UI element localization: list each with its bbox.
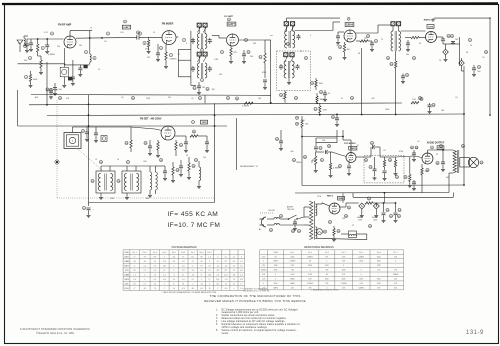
svg-text:19T8: 19T8 — [428, 26, 434, 28]
wire vertical x214.5 section — [214, 103, 216, 202]
vertical x459.6 — [459, 37, 461, 66]
svg-text:76: 76 — [233, 279, 235, 281]
interlock dashes — [260, 212, 273, 214]
capacitor C9 T1 left — [192, 38, 194, 42]
wire T2 top feed — [287, 17, 341, 19]
svg-text:12AT6: 12AT6 — [124, 278, 129, 281]
svg-text:500: 500 — [59, 89, 62, 91]
wire V4 plate to T4 — [356, 32, 378, 34]
svg-text:-1.0: -1.0 — [224, 279, 227, 281]
svg-text:1MEG: 1MEG — [290, 278, 295, 280]
svg-text:1MEG: 1MEG — [273, 287, 278, 289]
svg-text:-8.5: -8.5 — [200, 288, 203, 290]
svg-text:RESISTANCE READINGS: RESISTANCE READINGS — [304, 246, 334, 249]
svg-text:220: 220 — [147, 57, 150, 59]
svg-text:0: 0 — [361, 270, 362, 272]
svg-text:12.6: 12.6 — [208, 274, 211, 276]
svg-text:100: 100 — [219, 74, 222, 76]
wire vertical x302 — [301, 147, 303, 186]
svg-text:Pin 2: Pin 2 — [308, 252, 312, 254]
capacitor C1 ant — [26, 39, 28, 44]
transformer T2 1st FM IF — [286, 26, 288, 31]
capacitor C35 at 316 — [315, 143, 317, 146]
trimmer CT5 — [284, 22, 289, 26]
svg-text:-8.5: -8.5 — [172, 256, 175, 258]
electrolytic CE3 B- — [88, 203, 90, 207]
svg-text:1ST AUDIO: 1ST AUDIO — [344, 142, 356, 145]
resistor R26 V8 grid leak — [409, 174, 411, 181]
svg-text:Pin 4: Pin 4 — [162, 252, 166, 254]
svg-text:47: 47 — [163, 270, 165, 272]
wire V8 cathode down — [421, 188, 423, 193]
svg-text:94: 94 — [209, 265, 211, 267]
coil L5 — [199, 167, 201, 181]
svg-text:117: 117 — [224, 261, 227, 263]
capacitor C39 V8 — [413, 180, 415, 182]
svg-text:FM RF AMP: FM RF AMP — [58, 23, 72, 26]
wire B plus chain — [375, 203, 377, 206]
svg-text:100: 100 — [250, 56, 253, 58]
svg-text:-7: -7 — [217, 288, 219, 290]
resistor R19 V6 right — [175, 142, 177, 150]
svg-text:1.2: 1.2 — [163, 274, 165, 276]
svg-text:1.4: 1.4 — [133, 274, 135, 276]
svg-text:117: 117 — [182, 270, 185, 272]
transformer T4 ratio det — [392, 26, 394, 31]
wire verticals from row2 — [336, 130, 338, 143]
tuning capacitor CV1 — [64, 133, 81, 149]
wire screen pair — [316, 137, 337, 139]
svg-text:0: 0 — [395, 261, 396, 263]
wire V8 plate to OT — [424, 149, 426, 151]
svg-text:1/2 12AT7: 1/2 12AT7 — [224, 15, 234, 18]
svg-text:131-9: 131-9 — [466, 330, 484, 336]
svg-text:12BA6: 12BA6 — [124, 273, 129, 276]
svg-text:Pin 5: Pin 5 — [359, 252, 363, 254]
svg-text:35W4: 35W4 — [338, 197, 344, 200]
svg-text:117: 117 — [133, 270, 136, 272]
capacitor C14 V3 — [243, 50, 245, 54]
svg-text:1.2: 1.2 — [233, 256, 235, 258]
svg-text:.01: .01 — [455, 97, 458, 99]
coil L2 right of V1 — [89, 31, 91, 54]
svg-text:.45: .45 — [200, 283, 202, 285]
boxed label 12AT7 V3 — [227, 22, 236, 26]
svg-text:.45: .45 — [154, 283, 156, 285]
svg-text:L3: L3 — [90, 28, 92, 30]
table voltage readings grid — [122, 250, 124, 290]
svg-text:.45: .45 — [144, 261, 146, 263]
svg-text:Pin 1: Pin 1 — [290, 252, 294, 254]
boxed label 19T8 V6 — [200, 120, 207, 124]
svg-text:47: 47 — [182, 256, 184, 258]
transformer T7 output comb — [453, 150, 456, 173]
capacitor C22 V5 right — [437, 36, 444, 38]
trimmer CT9 — [391, 22, 395, 26]
resistor R2 — [40, 60, 42, 68]
svg-text:150: 150 — [342, 218, 345, 220]
capacitor C28 gang b — [95, 127, 97, 133]
svg-text:1.4: 1.4 — [208, 256, 210, 258]
svg-text:117: 117 — [133, 283, 136, 285]
capacitor C32 — [164, 166, 166, 171]
svg-text:.02: .02 — [383, 150, 386, 152]
svg-text:94: 94 — [144, 256, 146, 258]
capacitor C17 T3 left — [280, 64, 282, 66]
svg-text:Socket connections are shown a: Socket connections are shown as bottom v… — [222, 314, 276, 317]
svg-text:0: 0 — [209, 261, 210, 263]
svg-text:L5: L5 — [95, 159, 97, 161]
svg-text:RECT: RECT — [327, 195, 334, 197]
svg-text:12BA6: 12BA6 — [124, 260, 129, 263]
wire T2 left vertical — [270, 40, 272, 103]
svg-text:117: 117 — [191, 256, 194, 258]
capacitor C3 — [46, 39, 48, 45]
svg-text:10MEG: 10MEG — [358, 287, 364, 289]
svg-text:76: 76 — [154, 274, 156, 276]
svg-text:1.4: 1.4 — [200, 270, 202, 272]
svg-text:4.7MEG: 4.7MEG — [48, 54, 55, 56]
trimmer CT1 — [197, 23, 202, 27]
svg-text:5: 5 — [186, 43, 187, 45]
svg-text:Pin 7: Pin 7 — [394, 252, 398, 254]
boxed trimmer small — [101, 136, 107, 142]
capacitor C8 V2 cathode — [157, 44, 159, 53]
svg-text:2.2MEG: 2.2MEG — [340, 283, 347, 285]
svg-text:1.4: 1.4 — [154, 265, 156, 267]
wire V7 plate up — [350, 140, 352, 153]
svg-text:Volume control at maximum, no: Volume control at maximum, no signal app… — [222, 329, 297, 332]
capacitor C29 V6 — [149, 140, 151, 146]
svg-text:2.1: 2.1 — [225, 256, 227, 258]
tube V2 FM MIXER — [162, 31, 176, 45]
svg-text:Pin 3: Pin 3 — [153, 252, 157, 254]
svg-text:.005: .005 — [477, 71, 481, 73]
tube V8 AUDIO OUTPUT — [422, 153, 433, 164]
capacitor C31 — [206, 136, 208, 142]
svg-text:1.4: 1.4 — [173, 279, 175, 281]
svg-text:10MEG: 10MEG — [307, 256, 313, 258]
svg-text:3-13: 3-13 — [44, 32, 48, 34]
wire bus y115 — [47, 114, 464, 116]
svg-text:L6: L6 — [117, 159, 119, 161]
capacitor C23 right edge — [473, 65, 475, 68]
dashed tone box — [364, 155, 404, 183]
wire V1 out to V2 — [76, 36, 137, 39]
wire T1 left vertical — [190, 31, 192, 86]
resistor R1 — [37, 44, 39, 52]
vertical x464 det out — [463, 66, 465, 114]
svg-text:470K: 470K — [145, 49, 150, 51]
capacitor C25 bus — [336, 114, 338, 118]
svg-text:0: 0 — [343, 265, 344, 267]
svg-text:0: 0 — [164, 283, 165, 285]
svg-text:-1.0: -1.0 — [153, 270, 156, 272]
wire vertical x88.5 — [88, 95, 90, 203]
svg-text:76: 76 — [154, 288, 156, 290]
svg-text:105: 105 — [163, 265, 166, 267]
resistor R20 — [190, 135, 198, 137]
svg-text:0: 0 — [263, 283, 264, 285]
capacitor C33 — [180, 160, 182, 166]
wire gang top — [72, 127, 74, 133]
boxed label small — [68, 77, 73, 81]
transformer T5 leads — [100, 166, 102, 171]
resistor R22 — [188, 163, 190, 171]
svg-text:10: 10 — [153, 32, 155, 34]
trimmer CT7 — [284, 53, 289, 57]
electrolytic CE4 — [359, 203, 365, 209]
resistor R4 left low — [29, 74, 31, 81]
wire audio takeoff — [461, 68, 463, 71]
dashed shield box T3 — [277, 51, 311, 91]
capacitor C12 — [209, 66, 211, 68]
transformer T6 leads — [126, 166, 128, 171]
svg-text:0: 0 — [173, 265, 174, 267]
AC plug P1 — [262, 217, 267, 227]
svg-text:0: 0 — [192, 265, 193, 267]
svg-text:1MEG: 1MEG — [296, 162, 302, 164]
boxed label 19T8 V5 — [427, 25, 434, 29]
dashed gang diagonal — [78, 149, 103, 171]
svg-text:47: 47 — [357, 145, 359, 147]
svg-text:1.2: 1.2 — [208, 270, 210, 272]
svg-text:35W4: 35W4 — [124, 288, 128, 290]
resistor R21 — [172, 167, 174, 175]
ground T3 — [288, 78, 290, 81]
wire vertical x205 — [204, 95, 206, 103]
capacitor C13 below T1 — [198, 82, 200, 86]
svg-text:330: 330 — [394, 287, 397, 289]
wire B+ right bus — [434, 17, 490, 19]
line filter caps — [294, 219, 296, 222]
svg-text:2.2MEG: 2.2MEG — [307, 283, 314, 285]
svg-text:IF= 455 KC AM: IF= 455 KC AM — [168, 211, 219, 218]
coil L4 osc — [150, 172, 152, 190]
svg-text:0: 0 — [233, 288, 234, 290]
svg-text:THE COOPERATION OF THE MANUFAC: THE COOPERATION OF THE MANUFACTURER OF T… — [210, 294, 301, 298]
svg-text:.01: .01 — [191, 98, 194, 100]
svg-text:Nominal tolerance on component: Nominal tolerance on component values ma… — [222, 323, 300, 326]
resistor R6 V2 — [165, 52, 167, 60]
transformer T6 AM IF can B — [122, 171, 141, 193]
svg-text:300: 300 — [55, 90, 58, 92]
resistor R3 cathode boxed — [60, 67, 68, 77]
components left of V4 — [338, 31, 344, 33]
V8 cathode parts — [421, 168, 423, 175]
gang junction — [56, 161, 58, 163]
wire heater line y197 — [353, 196, 453, 198]
svg-text:470K: 470K — [301, 120, 306, 122]
junction labels row2 — [206, 87, 209, 90]
svg-text:100: 100 — [347, 49, 350, 51]
svg-text:Pin 3: Pin 3 — [325, 252, 329, 254]
resistor R13 below T4 — [395, 61, 397, 68]
svg-text:.45: .45 — [200, 261, 202, 263]
svg-text:47: 47 — [341, 98, 343, 100]
resistor R15 bus drop — [316, 96, 318, 102]
svg-text:Pin 1: Pin 1 — [133, 252, 137, 254]
resistor R27 filter — [365, 202, 373, 204]
svg-text:0: 0 — [209, 283, 210, 285]
svg-text:47: 47 — [18, 43, 20, 45]
wire B plus up — [383, 193, 385, 203]
svg-text:117: 117 — [224, 270, 227, 272]
transformer T3 1st AM IF — [284, 61, 286, 78]
svg-text:10: 10 — [300, 51, 302, 53]
svg-text:35: 35 — [209, 288, 211, 290]
svg-text:12AT7: 12AT7 — [124, 264, 129, 267]
boxed label 12BA6 V4 — [345, 23, 354, 27]
components left of V5 — [411, 36, 419, 38]
svg-text:-8.5: -8.5 — [216, 283, 219, 285]
svg-text:330: 330 — [406, 54, 409, 56]
wire V6 grid — [131, 127, 155, 129]
svg-text:1.4: 1.4 — [217, 274, 219, 276]
svg-text:22: 22 — [352, 225, 354, 227]
resistor R17 V6 grid — [130, 140, 132, 148]
svg-text:10MEG: 10MEG — [261, 270, 267, 272]
svg-text:.05: .05 — [121, 97, 124, 99]
T8 lead wires — [304, 216, 310, 218]
svg-text:-8.5: -8.5 — [240, 270, 243, 272]
svg-text:330: 330 — [262, 265, 265, 267]
svg-text:2.2M: 2.2M — [214, 59, 218, 61]
texture refs group B — [138, 32, 141, 35]
svg-text:68: 68 — [326, 274, 328, 276]
svg-text:Pin 4: Pin 4 — [342, 252, 346, 254]
electrolytic CE5 — [373, 203, 379, 209]
svg-text:-7: -7 — [164, 288, 166, 290]
svg-text:6.3: 6.3 — [154, 279, 156, 281]
svg-text:150K: 150K — [319, 83, 324, 85]
capacitor C19 — [324, 90, 326, 93]
svg-text:.05: .05 — [282, 98, 285, 100]
transformer T1 FM ant coil upper — [198, 27, 200, 33]
wire long y64 — [18, 63, 65, 65]
junction dots bus — [361, 114, 363, 116]
resistor R8 x265 — [264, 53, 266, 63]
svg-text:Pin 6: Pin 6 — [181, 252, 185, 254]
svg-text:RECEIVER MAKES IT POSSIBLE TO: RECEIVER MAKES IT POSSIBLE TO BRING YOU … — [204, 299, 306, 303]
svg-text:6.8MEG: 6.8MEG — [170, 59, 177, 61]
resistor R30 302 — [301, 121, 303, 128]
svg-text:100: 100 — [57, 46, 60, 48]
electrolytic CE2 — [459, 60, 465, 66]
filter choke L6 — [349, 231, 357, 238]
resistor R14 4.7MEG on bus — [235, 97, 238, 100]
wire T4 to V5 top — [401, 30, 426, 32]
svg-text:88: 88 — [201, 256, 203, 258]
svg-text:.45: .45 — [154, 261, 156, 263]
svg-text:47: 47 — [192, 261, 194, 263]
svg-text:47: 47 — [182, 274, 184, 276]
svg-text:.002: .002 — [371, 98, 375, 100]
capacitor C41 ps — [383, 206, 385, 212]
wire V8 grid — [396, 156, 415, 157]
svg-text:330: 330 — [24, 60, 27, 62]
svg-text:0: 0 — [217, 256, 218, 258]
capacitor C6 group — [79, 65, 81, 68]
svg-text:.45: .45 — [192, 274, 194, 276]
wire ps verticals — [342, 193, 344, 203]
svg-text:330: 330 — [325, 270, 328, 272]
svg-text:47: 47 — [233, 270, 235, 272]
tube V3 CONVERTER — [227, 34, 239, 46]
wire left box vertical x47 — [46, 62, 48, 105]
svg-text:33: 33 — [186, 155, 188, 157]
svg-text:-8.5: -8.5 — [163, 279, 166, 281]
wire OT bottom B plus — [449, 172, 453, 174]
svg-text:1MEG: 1MEG — [273, 261, 278, 263]
svg-text:0: 0 — [134, 265, 135, 267]
wire rect in — [322, 203, 330, 206]
wire section bus y202 — [89, 202, 215, 204]
svg-text:-1.0: -1.0 — [240, 274, 243, 276]
svg-text:0: 0 — [275, 274, 276, 276]
svg-text:0: 0 — [241, 256, 242, 258]
wire bus y104 AVC — [29, 103, 402, 105]
svg-text:FM DET - AM CONV: FM DET - AM CONV — [140, 118, 162, 121]
electrolytic CE1 — [443, 49, 449, 55]
capacitor C4 cathode — [72, 60, 74, 77]
svg-text:.01: .01 — [417, 141, 420, 143]
svg-text:470K: 470K — [323, 110, 328, 112]
volume control R23 — [315, 156, 317, 165]
svg-text:2.1: 2.1 — [144, 283, 146, 285]
capacitor C11 — [192, 66, 194, 68]
dashed gang link horizontal — [57, 197, 215, 199]
dashed gang link vertical — [56, 100, 58, 198]
svg-text:105: 105 — [153, 256, 156, 258]
capacitor C42 ps — [395, 206, 397, 212]
svg-text:6.3: 6.3 — [133, 279, 135, 281]
trimmer CT8 — [290, 53, 295, 57]
capacitor C30 — [185, 136, 187, 142]
svg-text:0: 0 — [275, 278, 276, 280]
wire vertical x464 low — [463, 114, 465, 185]
capacitor C21 below T4 — [402, 74, 404, 77]
svg-text:560K: 560K — [33, 79, 38, 81]
svg-text:0: 0 — [173, 270, 174, 272]
svg-text:©Howard W. Sams & Co., Inc. 19: ©Howard W. Sams & Co., Inc. 1951 — [36, 332, 75, 335]
svg-text:94: 94 — [233, 265, 235, 267]
capacitor C24 on bus — [50, 88, 52, 91]
svg-text:ON-OFF: ON-OFF — [268, 210, 276, 212]
svg-text:12AT7: 12AT7 — [124, 255, 129, 258]
svg-text:5: 5 — [310, 35, 311, 37]
wire bus y192.5 — [295, 192, 449, 195]
svg-text:1.4: 1.4 — [192, 270, 194, 272]
svg-text:Pin 7: Pin 7 — [191, 252, 195, 254]
capacitor C20 V4 right — [371, 41, 373, 43]
svg-text:2.1: 2.1 — [192, 279, 194, 281]
wire V3 plate right — [239, 39, 266, 41]
svg-text:100: 100 — [203, 157, 206, 159]
wire bus y126 — [18, 125, 227, 127]
svg-text:6.3: 6.3 — [233, 261, 235, 263]
transformer T8 power comb — [310, 201, 313, 240]
transformer T5 AM IF can A — [96, 171, 115, 193]
svg-text:.005: .005 — [290, 151, 294, 153]
transformer T1 lower — [198, 56, 200, 63]
boxed label 50B5 — [437, 146, 444, 150]
boxed label 35W4 — [338, 196, 345, 200]
wire T4 down — [395, 72, 397, 115]
svg-text:6.3: 6.3 — [182, 265, 184, 267]
svg-text:.01: .01 — [336, 45, 339, 47]
svg-text:19T8: 19T8 — [202, 122, 208, 124]
